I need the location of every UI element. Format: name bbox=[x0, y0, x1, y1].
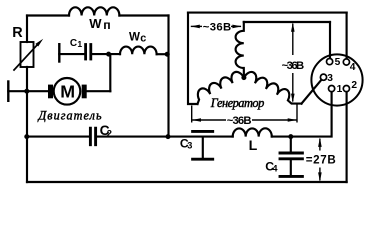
dim bottom extension left bbox=[191, 106, 193, 123]
svg-text:5: 5 bbox=[335, 57, 341, 68]
svg-text:W: W bbox=[89, 16, 102, 31]
dim bottom ~36V line bbox=[192, 119, 226, 121]
svg-text:4: 4 bbox=[272, 163, 278, 173]
node junction rail-C2 bbox=[24, 134, 29, 139]
wire C1 left bbox=[59, 53, 84, 55]
wire left rail upper bbox=[26, 16, 28, 43]
motor M1 bbox=[48, 78, 87, 105]
dim top ~36V line bbox=[191, 25, 202, 27]
svg-text:C: C bbox=[70, 38, 77, 49]
terminal C1 left bar bbox=[58, 44, 60, 61]
wire Wc to rail bbox=[157, 53, 169, 55]
svg-text:2: 2 bbox=[107, 127, 112, 138]
capacitor C1 bbox=[86, 45, 91, 60]
wire left rail lower bbox=[26, 67, 28, 182]
wire top winding to pin5 bbox=[244, 21, 330, 23]
capacitor C3 bbox=[193, 131, 213, 159]
svg-text:1: 1 bbox=[77, 39, 82, 49]
svg-text:с: с bbox=[140, 32, 146, 44]
node junction rail-C2 right bbox=[166, 134, 171, 139]
resistor R bbox=[21, 42, 34, 67]
node junction C1/Wc/motor bbox=[106, 52, 111, 57]
dim right ~36V line bbox=[292, 24, 294, 55]
resistor arrow bbox=[14, 39, 43, 70]
wire top-left horizontal bbox=[27, 14, 69, 16]
node junction Wc-rail bbox=[165, 52, 170, 57]
dim bottom extension right bbox=[296, 105, 298, 123]
wire vertical motor-C1 bbox=[109, 54, 111, 91]
wire bottom-mid horizontal bbox=[169, 136, 233, 138]
capacitor C2 bbox=[90, 128, 95, 145]
inductor L bbox=[233, 128, 272, 136]
svg-text:3: 3 bbox=[327, 73, 333, 84]
wire top to right rail bbox=[119, 14, 168, 16]
wire L to C4 node bbox=[272, 136, 291, 138]
svg-text:Генератор: Генератор bbox=[210, 96, 264, 110]
capacitor C4 bbox=[280, 137, 302, 177]
svg-text:1: 1 bbox=[337, 84, 343, 95]
pin 4 bbox=[343, 59, 349, 65]
node junction C4 bbox=[288, 134, 293, 139]
svg-text:Двигатель: Двигатель bbox=[38, 109, 102, 123]
dimension arrows group bbox=[191, 23, 322, 182]
wire bottom main bbox=[27, 181, 347, 183]
svg-text:п: п bbox=[103, 18, 110, 32]
svg-text:L: L bbox=[249, 138, 258, 154]
generator winding right bbox=[244, 72, 302, 104]
wire right rail bbox=[167, 16, 169, 137]
svg-text:~36В: ~36В bbox=[227, 115, 252, 127]
wire pin1 drop bbox=[291, 92, 332, 137]
svg-text:W: W bbox=[129, 31, 140, 44]
wire generator box left bbox=[188, 13, 198, 104]
svg-text:=27В: =27В bbox=[306, 154, 336, 167]
wire C2 left bbox=[27, 136, 89, 138]
inductor Wп bbox=[69, 7, 119, 15]
svg-text:4: 4 bbox=[350, 62, 356, 73]
generator winding top bbox=[236, 22, 244, 78]
node generator star point bbox=[241, 75, 246, 80]
inductor Wc bbox=[120, 47, 157, 55]
wire pin2 drop bbox=[346, 92, 348, 182]
svg-text:R: R bbox=[12, 25, 23, 41]
wire pin5 drop bbox=[329, 22, 331, 58]
wire pin4 drop bbox=[346, 13, 348, 59]
pin 3 bbox=[320, 74, 326, 80]
wire terminal to rail bbox=[8, 90, 48, 92]
svg-text:3: 3 bbox=[187, 140, 192, 150]
wire C1 right bbox=[92, 53, 120, 55]
pin 2 bbox=[343, 86, 349, 92]
pin 1 bbox=[329, 86, 335, 92]
svg-text:2: 2 bbox=[351, 80, 357, 91]
dim =27V line bbox=[319, 139, 321, 151]
connector plug circle bbox=[311, 54, 362, 105]
wire winding right to pin3 bbox=[302, 80, 322, 103]
svg-text:~36В: ~36В bbox=[203, 21, 231, 33]
wire C2 right bbox=[97, 136, 169, 138]
wire motor to vertical bbox=[87, 90, 111, 92]
node junction rail-motor bbox=[24, 89, 29, 94]
svg-text:~36В: ~36В bbox=[282, 60, 305, 72]
wire generator box top bbox=[188, 12, 347, 14]
generator winding left bbox=[198, 72, 244, 104]
pin 5 bbox=[327, 59, 333, 65]
svg-text:М: М bbox=[60, 82, 75, 102]
terminal input bar bbox=[7, 82, 9, 101]
